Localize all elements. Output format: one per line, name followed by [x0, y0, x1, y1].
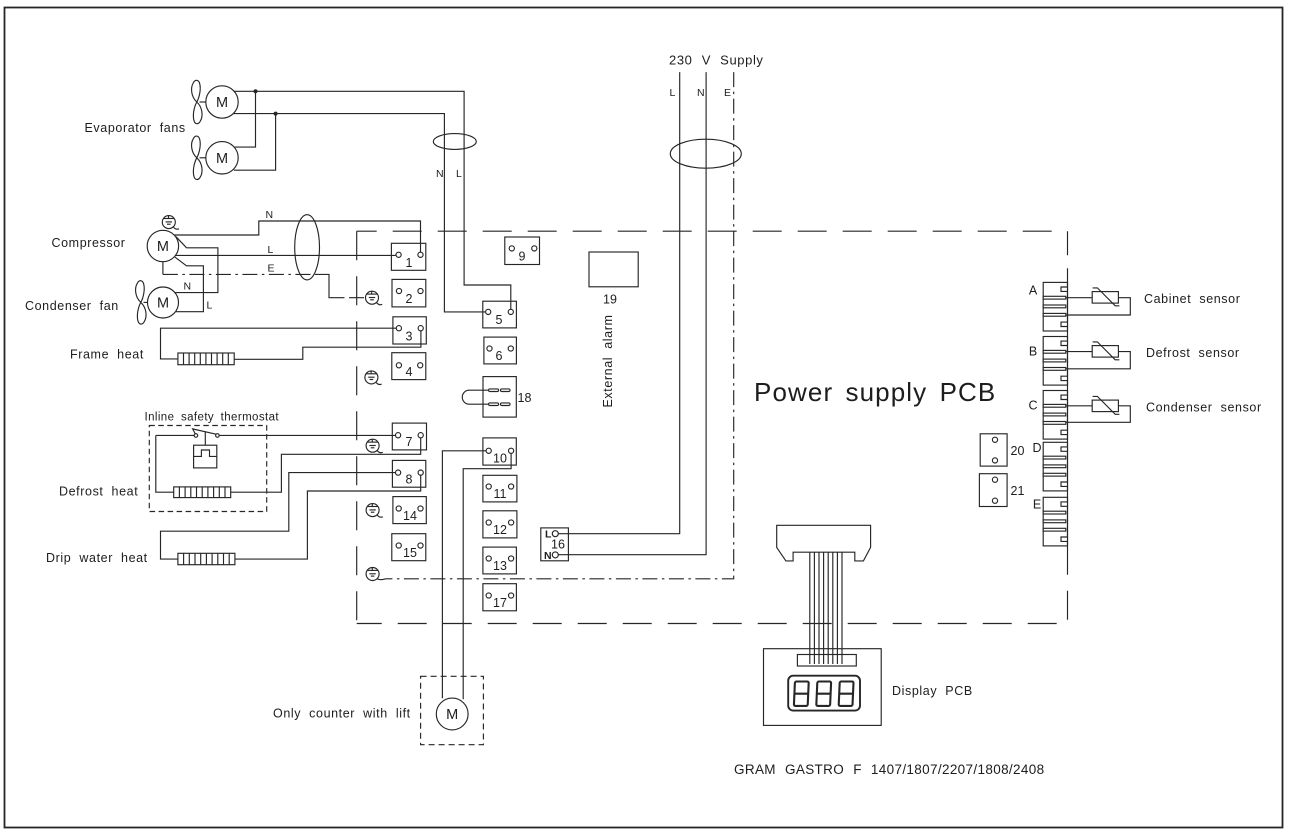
ground G6 — [366, 568, 385, 581]
thermostat dashed box — [149, 426, 266, 512]
jumper 20 — [980, 434, 1024, 466]
svg-text:Display PCB: Display PCB — [892, 684, 973, 698]
jumper 21 — [979, 474, 1024, 507]
svg-text:B: B — [1029, 345, 1037, 359]
connector block E — [1043, 497, 1067, 546]
wire thermostat to terminal 7 — [219, 434, 395, 436]
wire compressor to condenser N — [175, 237, 218, 293]
display PCB board — [764, 649, 882, 726]
heater frame heat — [178, 353, 234, 365]
wire fan2 to junction A — [235, 91, 256, 147]
wire compressor L — [176, 254, 397, 256]
wire terminal 8 to drip heater — [161, 473, 396, 559]
svg-text:230 V Supply: 230 V Supply — [669, 53, 764, 68]
fuse plug 18 — [462, 377, 531, 418]
wire thermostat loop left — [156, 435, 174, 492]
svg-text:13: 13 — [493, 559, 507, 573]
svg-text:M: M — [446, 707, 458, 723]
svg-text:N: N — [436, 168, 444, 180]
cable ellipse compressor — [295, 215, 320, 280]
wire 16 N to supply — [558, 72, 706, 555]
svg-text:3: 3 — [406, 329, 413, 343]
wire compressor E dash-dot — [162, 262, 164, 275]
terminal 5 — [483, 301, 517, 328]
dashed boundary bottom — [357, 623, 1068, 625]
wire supply E dash-dot — [386, 72, 734, 579]
svg-text:M: M — [216, 95, 228, 111]
wire defrost return — [231, 438, 421, 492]
svg-text:7: 7 — [406, 435, 413, 449]
svg-text:5: 5 — [496, 313, 503, 327]
heater defrost heat — [174, 487, 231, 498]
wire fan2 to junction B — [234, 114, 276, 171]
svg-text:21: 21 — [1011, 484, 1025, 498]
wire frame heat top — [161, 328, 397, 359]
seven segment display — [788, 676, 860, 711]
svg-text:L: L — [207, 300, 213, 312]
terminal 12 — [483, 511, 517, 538]
svg-text:M: M — [157, 296, 169, 312]
svg-text:11: 11 — [494, 487, 507, 501]
wire compressor to condenser L — [175, 257, 204, 312]
svg-text:N: N — [697, 87, 705, 99]
svg-text:GRAM GASTRO F 1407/1807/2207/1: GRAM GASTRO F 1407/1807/2207/1808/2408 — [734, 762, 1044, 777]
terminal 7 — [392, 423, 426, 450]
external alarm box 19 — [589, 252, 638, 408]
svg-text:Inline safety thermostat: Inline safety thermostat — [145, 412, 280, 424]
svg-text:6: 6 — [496, 349, 503, 363]
svg-text:Frame heat: Frame heat — [70, 348, 144, 362]
ground G2 — [366, 291, 383, 305]
wire terminal 10 right to motor — [463, 453, 511, 699]
svg-text:L: L — [268, 244, 274, 256]
svg-text:Only counter with lift: Only counter with lift — [273, 707, 411, 721]
terminal 13 — [483, 547, 517, 574]
connector strip solid edge — [1067, 282, 1069, 545]
dashed boundary right — [1067, 231, 1069, 282]
svg-text:External alarm: External alarm — [601, 315, 615, 408]
svg-text:12: 12 — [493, 523, 507, 537]
ground G3 — [365, 371, 382, 385]
svg-text:Evaporator fans: Evaporator fans — [85, 121, 186, 135]
svg-text:16: 16 — [551, 538, 565, 552]
svg-text:14: 14 — [403, 509, 417, 523]
svg-text:D: D — [1032, 441, 1041, 455]
svg-text:2: 2 — [406, 292, 413, 306]
wire fan1 N to vertical — [233, 114, 488, 312]
motor M evaporator fan 1 — [192, 80, 239, 123]
svg-text:Defrost heat: Defrost heat — [59, 485, 138, 499]
terminal 8 — [392, 460, 425, 487]
svg-text:Power supply PCB: Power supply PCB — [754, 377, 996, 407]
terminal 14 — [393, 497, 426, 524]
thermostat sensor element — [194, 445, 217, 468]
svg-text:L: L — [670, 87, 676, 99]
cable ellipse supply — [670, 139, 741, 168]
svg-text:Condenser fan: Condenser fan — [25, 299, 119, 313]
sensor NTC condenser — [1066, 396, 1130, 422]
cable ellipse evaporator — [433, 134, 476, 150]
terminal 9 — [505, 237, 540, 265]
ground G1 compressor — [162, 216, 179, 230]
terminal 3 — [393, 317, 426, 344]
terminal 6 — [484, 337, 517, 364]
svg-text:19: 19 — [603, 293, 617, 307]
svg-text:Cabinet sensor: Cabinet sensor — [1144, 292, 1240, 306]
terminal 17 — [483, 584, 517, 611]
svg-text:17: 17 — [493, 596, 507, 610]
motor M evaporator fan 2 — [192, 136, 239, 179]
terminal 1 — [391, 243, 425, 270]
wire frame heat return — [234, 331, 421, 360]
motor M compressor — [147, 230, 178, 261]
wire 16 L to supply — [558, 72, 680, 534]
display ribbon connector — [777, 525, 871, 561]
svg-text:C: C — [1028, 399, 1037, 413]
connector block D — [1043, 442, 1067, 491]
svg-text:N: N — [184, 281, 192, 293]
svg-text:A: A — [1029, 284, 1038, 298]
svg-text:M: M — [157, 239, 169, 255]
terminal 11 — [483, 475, 517, 502]
svg-text:M: M — [216, 151, 228, 167]
svg-text:4: 4 — [406, 365, 413, 379]
thermostat switch — [156, 429, 219, 445]
wire terminal 10 left to motor — [442, 451, 486, 698]
wire compressor N — [175, 221, 421, 252]
wire drip return — [235, 475, 421, 559]
svg-text:1: 1 — [406, 256, 413, 270]
dashed boundary left — [356, 231, 358, 623]
dashed boundary power supply PCB top — [357, 230, 1068, 232]
sensor NTC cabinet — [1066, 288, 1130, 315]
wire fan1 L to vertical — [234, 91, 511, 312]
svg-text:18: 18 — [518, 391, 532, 405]
terminal 10 — [483, 438, 516, 466]
svg-text:E: E — [268, 263, 275, 275]
propeller condenser fan — [136, 281, 148, 324]
svg-text:20: 20 — [1011, 444, 1025, 458]
heater drip water heat — [178, 553, 235, 564]
ground G5 — [366, 504, 383, 518]
junction A — [254, 89, 258, 93]
svg-text:Drip water heat: Drip water heat — [46, 551, 148, 565]
svg-text:E: E — [1033, 498, 1041, 512]
svg-text:8: 8 — [406, 473, 413, 487]
svg-text:15: 15 — [403, 546, 417, 560]
motor M lift — [421, 676, 484, 744]
terminal 15 — [392, 534, 426, 561]
ribbon cable — [810, 552, 842, 664]
svg-text:N: N — [266, 209, 274, 221]
junction B — [274, 112, 278, 116]
svg-text:Compressor: Compressor — [52, 236, 126, 250]
connector block A — [1043, 282, 1067, 331]
svg-text:10: 10 — [493, 451, 507, 465]
svg-text:Defrost sensor: Defrost sensor — [1146, 346, 1240, 360]
relay 16 — [541, 528, 569, 562]
display connector socket — [797, 655, 856, 667]
terminal 2 — [392, 279, 426, 307]
connector block B — [1043, 337, 1067, 386]
ground G4 — [366, 439, 383, 453]
svg-text:L: L — [456, 168, 462, 180]
motor M condenser fan — [148, 287, 179, 318]
terminal 4 — [392, 353, 426, 380]
svg-text:E: E — [724, 87, 731, 99]
svg-text:9: 9 — [519, 250, 526, 264]
svg-text:Condenser sensor: Condenser sensor — [1146, 401, 1262, 415]
connector block C — [1043, 391, 1067, 440]
sensor NTC defrost — [1066, 342, 1130, 369]
